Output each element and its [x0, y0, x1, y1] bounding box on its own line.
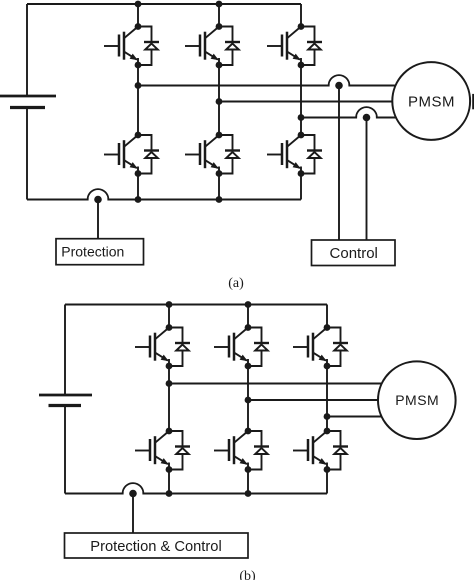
- battery B1 (DC source, circuit a): [0, 96, 56, 108]
- current sensor on phase C line: [356, 107, 377, 121]
- node: top rail / leg A junction (b): [166, 301, 173, 308]
- cropped mark at right image edge: [472, 94, 474, 109]
- transistor Q6: lower IGBT leg C with freewheel diode: [267, 132, 322, 177]
- svg-text:(a): (a): [228, 276, 244, 291]
- wire: phase B line to motor (b): [248, 399, 380, 401]
- node: phase C output junction (b): [324, 413, 331, 420]
- wire: phase C sensor signal down to Control box: [366, 118, 368, 241]
- wire: DC bus positive rail (top, circuit b): [65, 304, 327, 306]
- wire: leg A lower emitter to bottom rail (b): [168, 470, 170, 494]
- current sensor on phase A line: [329, 75, 350, 89]
- node: phase A output junction: [135, 82, 142, 89]
- transistor Q2b: lower IGBT leg A with freewheel diode (b): [135, 428, 190, 473]
- transistor Q3b: upper IGBT leg B with freewheel diode (b): [214, 324, 269, 369]
- wire: DC bus positive rail (top, circuit a): [27, 3, 301, 5]
- wire: leg A top rail to upper IGBT collector: [137, 4, 139, 27]
- wire: leg C lower emitter to bottom rail corner: [300, 174, 302, 200]
- box: Control: [312, 240, 396, 266]
- wire: leg B midpoint vertical (b): [247, 366, 249, 431]
- node: phase B output junction: [216, 98, 223, 105]
- box: Protection: [56, 239, 144, 265]
- node: phase A output junction (b): [166, 380, 173, 387]
- wire: leg B top rail to upper IGBT collector (b): [247, 305, 249, 328]
- wire: leg C lower emitter to bottom rail corner (b): [326, 470, 328, 494]
- node: bottom rail / leg B junction: [216, 196, 223, 203]
- svg-text:(b): (b): [239, 569, 256, 580]
- wire: leg A midpoint vertical (emitter to lower collector): [137, 65, 139, 135]
- transistor Q2: lower IGBT leg A with freewheel diode: [104, 132, 159, 177]
- wire: DC bus negative rail (bottom, circuit a): [27, 199, 301, 201]
- current sensor on DC return rail: [88, 189, 109, 203]
- node: phase C output junction: [298, 114, 305, 121]
- transistor Q5: upper IGBT leg C with freewheel diode: [267, 23, 322, 68]
- svg-text:PMSM: PMSM: [408, 93, 455, 110]
- node: bottom rail / leg A junction: [135, 196, 142, 203]
- node: bottom rail / leg B junction (b): [245, 490, 252, 497]
- wire: phase A sensor signal down to Control box: [338, 86, 340, 241]
- node: bottom rail / leg A junction (b): [166, 490, 173, 497]
- wire: phase A line to motor (b): [169, 383, 384, 385]
- wire: leg B lower emitter to bottom rail: [218, 174, 220, 200]
- motor PMSM (circuit b): [378, 361, 456, 439]
- wire: leg A lower emitter to bottom rail: [137, 174, 139, 200]
- current sensor on DC return rail (b): [123, 483, 144, 497]
- wire: leg C midpoint vertical: [300, 65, 302, 135]
- wire: leg B midpoint vertical: [218, 65, 220, 135]
- transistor Q6b: lower IGBT leg C with freewheel diode (b): [293, 428, 348, 473]
- transistor Q3: upper IGBT leg B with freewheel diode: [185, 23, 240, 68]
- wire: left vertical from top rail to battery positive: [26, 4, 28, 96]
- wire: leg A top rail to upper IGBT collector (b): [168, 305, 170, 328]
- transistor Q4b: lower IGBT leg B with freewheel diode (b): [214, 428, 269, 473]
- box: Protection & Control: [65, 533, 249, 558]
- wire: leg C midpoint vertical (b): [326, 366, 328, 431]
- wire: phase C line to motor: [301, 117, 398, 119]
- wire: sensor signal down to Protection & Control box: [132, 494, 134, 534]
- wire: leg B top rail to upper IGBT collector: [218, 4, 220, 27]
- wire: leg C top rail corner to upper IGBT collector: [300, 4, 302, 27]
- svg-text:PMSM: PMSM: [395, 392, 439, 408]
- svg-text:Protection: Protection: [61, 244, 124, 260]
- wire: leg C top rail corner to upper IGBT collector (b): [326, 305, 328, 328]
- wire: phase A line to motor: [138, 85, 397, 87]
- transistor Q1: upper IGBT leg A with freewheel diode: [104, 23, 159, 68]
- transistor Q1b: upper IGBT leg A with freewheel diode (b): [135, 324, 190, 369]
- node: top rail / leg B junction: [216, 1, 223, 8]
- wire: leg A midpoint vertical (b): [168, 366, 170, 431]
- wire: battery negative down to bottom rail: [26, 108, 28, 200]
- svg-text:Protection & Control: Protection & Control: [90, 539, 221, 555]
- wire: left vertical from top rail to battery positive (b): [64, 305, 66, 396]
- transistor Q5b: upper IGBT leg C with freewheel diode (b): [293, 324, 348, 369]
- transistor Q4: lower IGBT leg B with freewheel diode: [185, 132, 240, 177]
- motor PMSM (circuit a): [392, 62, 470, 140]
- node: top rail / leg A junction: [135, 1, 142, 8]
- svg-text:Control: Control: [330, 245, 378, 262]
- node: phase B output junction (b): [245, 397, 252, 404]
- wire: battery negative down to bottom rail (b): [64, 406, 66, 494]
- wire: leg B lower emitter to bottom rail (b): [247, 470, 249, 494]
- wire: DC rail sensor signal down to Protection box: [97, 200, 99, 240]
- battery B2 (DC source, circuit b): [39, 395, 92, 406]
- wire: phase C line to motor (b): [327, 416, 384, 418]
- wire: DC bus negative rail (bottom, circuit b): [65, 493, 327, 495]
- node: top rail / leg B junction (b): [245, 301, 252, 308]
- wire: phase B line to motor: [219, 101, 394, 103]
